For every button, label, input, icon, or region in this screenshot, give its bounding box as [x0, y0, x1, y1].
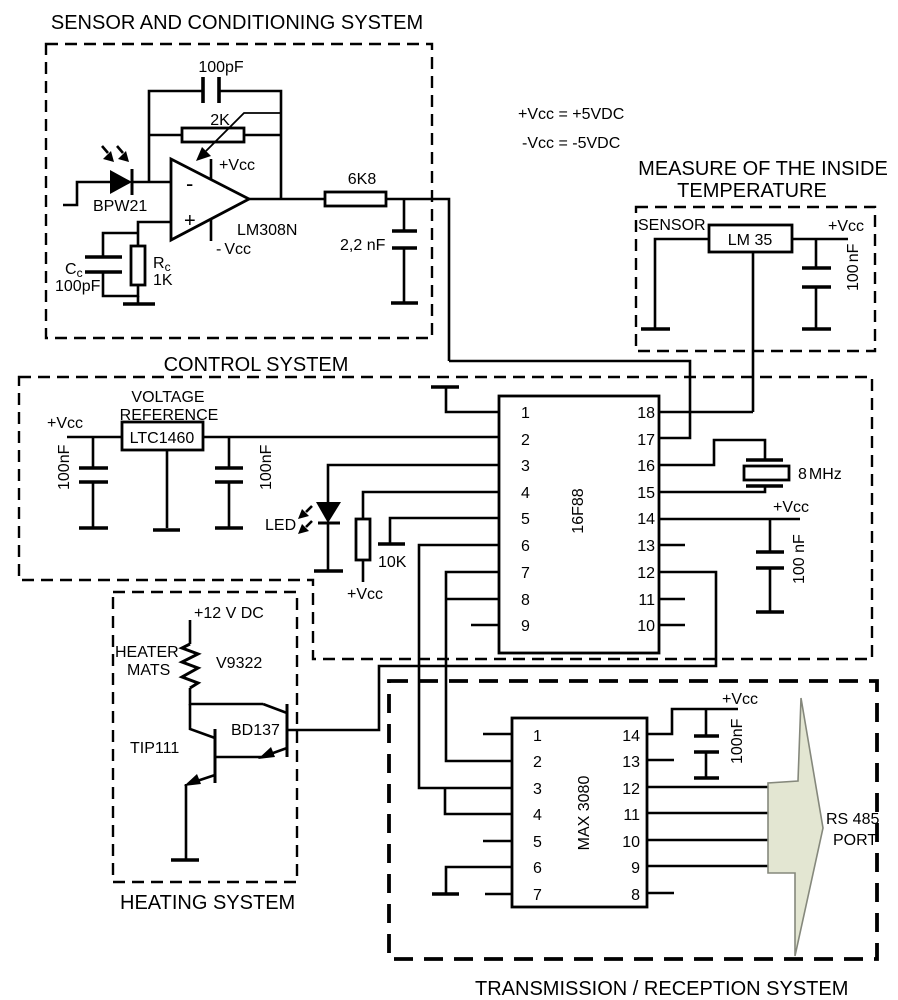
svg-text:LTC1460: LTC1460	[130, 430, 195, 447]
input terminal stub	[63, 182, 110, 205]
svg-text:RS 485: RS 485	[826, 811, 879, 828]
dashed enclosure: sensor and conditioning system	[46, 44, 432, 338]
svg-text:11: 11	[623, 807, 640, 824]
resistor 2K (adjustable)	[182, 128, 244, 142]
svg-text:8: 8	[631, 887, 640, 904]
pin number 4 (MAX)	[533, 807, 542, 824]
svg-text:15: 15	[637, 485, 655, 502]
pin number 10	[637, 618, 655, 635]
wire +Vcc to LTC1460	[67, 436, 122, 439]
wire 16F88 pin 13 stub	[659, 544, 685, 547]
svg-text:-: -	[186, 171, 193, 196]
wire MAX pin 11 to RS485 port	[647, 812, 768, 815]
dashed enclosure: measure of the inside temperature	[636, 207, 875, 351]
wire MAX pin 10 to RS485 port	[647, 839, 768, 842]
svg-text:9: 9	[631, 860, 640, 877]
dashed enclosure: heating system	[113, 592, 297, 882]
svg-text:100nF: 100nF	[258, 444, 275, 490]
wire TIP111 emitter to ground	[185, 784, 188, 859]
IC LTC1460 voltage reference	[122, 422, 203, 450]
wire MAX pin 1 stub	[483, 733, 512, 736]
label +Vcc (MAX)	[722, 691, 758, 708]
wire 16F88 pin 8 join	[446, 598, 499, 601]
label BPW21	[93, 198, 147, 215]
pin number 2 (MAX)	[533, 754, 542, 771]
wire 16F88 pin 16 to crystal top	[659, 440, 765, 465]
svg-text:TRANSMISSION / RECEPTION SYSTE: TRANSMISSION / RECEPTION SYSTEM	[475, 978, 848, 1000]
wire op-amp non-inverting input	[138, 222, 171, 246]
wire MAX pin 7 stub	[485, 893, 512, 896]
svg-text:1: 1	[533, 728, 542, 745]
wire 2K right lead	[244, 134, 281, 137]
svg-text:+Vcc = +5VDC: +Vcc = +5VDC	[518, 106, 624, 123]
pin number 2	[521, 432, 530, 449]
ground (LM35 decoupling cap)	[802, 327, 831, 331]
pin number 11	[638, 592, 655, 609]
capacitor 100nF (LTC1460 input)	[79, 437, 108, 527]
RS 485 port arrow	[768, 698, 823, 956]
IC U2 MAX 3080	[512, 718, 647, 907]
resistor Rc 1K	[131, 246, 145, 285]
svg-text:100nF: 100nF	[845, 243, 862, 291]
wire MAX pin 8 stub	[647, 892, 674, 895]
wire 16F88 pin 17 to sensor output	[449, 361, 690, 438]
capacitor 100nF (LTC1460 output)	[215, 437, 243, 527]
wire 16F88 pin 11 stub	[659, 598, 685, 601]
svg-text:100pF: 100pF	[55, 278, 101, 295]
wire 16F88 pin 3 to LED	[328, 465, 499, 502]
resistor 6K8	[325, 192, 386, 206]
svg-text:MAX 3080: MAX 3080	[576, 776, 593, 851]
svg-text:CONTROL SYSTEM: CONTROL SYSTEM	[164, 354, 349, 376]
wire MAX pin 14 to +Vcc	[647, 709, 738, 734]
pull-up bar at 16F88 pin 1	[431, 387, 499, 412]
label RS 485 PORT	[826, 811, 879, 849]
label V9322	[216, 655, 262, 672]
label 8 MHz	[798, 466, 842, 483]
TIP111 collector	[190, 704, 215, 738]
svg-text:BD137: BD137	[231, 722, 280, 739]
pin number 8	[521, 592, 530, 609]
transistor Q1 TIP111	[214, 729, 217, 783]
wire BD137 emitter to TIP111 base	[215, 756, 262, 759]
wire LM35 left lead	[655, 239, 709, 328]
wire op-amp output	[249, 198, 325, 201]
svg-text:PORT: PORT	[833, 832, 877, 849]
wire +12V down to heater resistor	[189, 620, 192, 644]
svg-text:100nF: 100nF	[729, 718, 746, 764]
label Rc	[153, 255, 171, 274]
svg-text:18: 18	[637, 405, 655, 422]
capacitor 100nF (MAX decoupling)	[694, 709, 719, 777]
ground (2,2 nF)	[391, 301, 418, 305]
svg-text:SENSOR AND CONDITIONING SYSTEM: SENSOR AND CONDITIONING SYSTEM	[51, 12, 423, 34]
capacitor 100 nF (LM35 decoupling)	[802, 239, 831, 328]
wire 6K8 output node	[386, 199, 449, 361]
pin number 10 (MAX)	[622, 834, 640, 851]
svg-text:9: 9	[521, 618, 530, 635]
wire LM35 right lead to +Vcc	[792, 238, 848, 241]
dashed enclosure: transmission / reception system	[389, 681, 877, 959]
svg-text:+Vcc: +Vcc	[773, 499, 809, 516]
wire LTC1460 output to 16F88 pin 2	[203, 436, 499, 439]
pin number 4	[521, 485, 530, 502]
wire 16F88 pin 18 to LM35	[659, 411, 753, 414]
wire 2,2nF tap	[403, 199, 406, 231]
svg-text:BPW21: BPW21	[93, 198, 147, 215]
wire Cc top connection	[103, 233, 138, 257]
svg-text:7: 7	[521, 565, 530, 582]
wire feedback cap left	[149, 91, 203, 182]
pin number 12	[637, 565, 655, 582]
wire 16F88 pin 14 to +Vcc	[659, 518, 800, 521]
ground (output cap)	[215, 526, 243, 530]
pin number 7	[521, 565, 530, 582]
value label 100pF (feedback capacitor)	[198, 59, 244, 76]
label TIP111	[130, 740, 179, 757]
ground (input cap)	[79, 526, 108, 530]
transistor Q2 BD137	[286, 704, 289, 757]
potentiometer wiper arrow for 2K	[196, 113, 281, 161]
label 100 nF rotated (16F88 decoupling)	[791, 534, 808, 584]
svg-text:+Vcc: +Vcc	[828, 218, 864, 235]
ground (sensor input network)	[123, 296, 155, 304]
capacitor Cc 100pF	[85, 257, 122, 272]
wire 16F88 pin 12 to BD137 base	[287, 572, 716, 730]
ground (LTC1460)	[153, 528, 180, 532]
label 100pF (Cc value)	[55, 278, 101, 295]
pin number 5	[521, 511, 530, 528]
svg-text:14: 14	[622, 728, 640, 745]
label 10K	[378, 554, 407, 571]
pin number 14	[637, 511, 655, 528]
capacitor C feedback 100pF	[203, 77, 219, 103]
ground (LED)	[314, 569, 343, 573]
supply note +Vcc = +5VDC	[518, 106, 624, 123]
crystal X1 8MHz	[744, 460, 789, 486]
label BD137	[231, 722, 280, 739]
svg-text:6: 6	[521, 538, 530, 555]
op-amp -Vcc supply pin	[211, 219, 251, 258]
pin number 13 (MAX)	[622, 754, 640, 771]
label +Vcc (LTC1460 input)	[47, 415, 83, 432]
svg-text:16F88: 16F88	[570, 488, 587, 533]
svg-text:TEMPERATURE: TEMPERATURE	[677, 180, 827, 202]
section title: SENSOR AND CONDITIONING SYSTEM	[51, 12, 423, 34]
pin number 6	[521, 538, 530, 555]
LED light emission arrows	[298, 506, 312, 534]
ground (heating)	[171, 858, 199, 862]
resistor 10K	[356, 519, 370, 582]
section title: MEASURE OF THE INSIDE TEMPERATURE	[638, 158, 888, 202]
svg-text:+Vcc: +Vcc	[47, 415, 83, 432]
pin number 5 (MAX)	[533, 834, 542, 851]
svg-text:17: 17	[637, 432, 655, 449]
wire 16F88 pin 9 stub	[471, 624, 499, 627]
svg-text:1K: 1K	[153, 272, 173, 289]
wire MAX pin 3/4 tie	[445, 788, 512, 814]
wire heater resistor to collectors node	[190, 688, 263, 704]
LED D1	[316, 502, 341, 570]
supply note -Vcc = -5VDC	[522, 135, 620, 152]
pin number 15	[637, 485, 655, 502]
svg-text:LM 35: LM 35	[728, 232, 773, 249]
svg-text:TIP111: TIP111	[130, 740, 179, 757]
label Cc	[65, 261, 83, 280]
svg-text:5: 5	[521, 511, 530, 528]
svg-text:2: 2	[521, 432, 530, 449]
svg-text:+Vcc: +Vcc	[347, 586, 383, 603]
pin number 1 (MAX)	[533, 728, 542, 745]
wire 16F88 pins 7-8 down to MAX3080 pin 2	[446, 572, 512, 761]
pin number 7 (MAX)	[533, 887, 542, 904]
ground (MAX pin 6)	[432, 892, 459, 896]
dashed enclosure: control system (L-shaped)	[19, 377, 872, 659]
label 100 nF rotated	[845, 243, 862, 291]
IC U1 16F88	[499, 396, 659, 653]
svg-text:-Vcc = -5VDC: -Vcc = -5VDC	[522, 135, 620, 152]
svg-text:+12 V DC: +12 V DC	[194, 605, 264, 622]
svg-text:V9322: V9322	[216, 655, 262, 672]
label 100nF rotated (output cap)	[258, 444, 275, 490]
svg-text:10K: 10K	[378, 554, 407, 571]
ground (MAX decoupling cap)	[694, 776, 719, 780]
svg-text:+Vcc: +Vcc	[722, 691, 758, 708]
label LM308N	[237, 222, 297, 239]
svg-text:100pF: 100pF	[198, 59, 244, 76]
light arrows into photodiode	[102, 146, 129, 162]
wire LM35 output down to 16F88 pin 18	[752, 252, 755, 412]
TIP111 emitter with arrow	[184, 774, 215, 786]
svg-text:3: 3	[521, 458, 530, 475]
svg-text:+Vcc: +Vcc	[219, 157, 255, 174]
wire MAX pin 13 stub	[647, 759, 674, 762]
pin number 18	[637, 405, 655, 422]
svg-text:6K8: 6K8	[348, 171, 377, 188]
wire BD137 collector	[263, 704, 287, 713]
svg-text:16: 16	[637, 458, 655, 475]
section title: CONTROL SYSTEM	[164, 354, 349, 376]
svg-text:4: 4	[521, 485, 530, 502]
value label 6K8	[348, 171, 377, 188]
wire feedback cap right	[219, 91, 281, 199]
pin number 17	[637, 432, 655, 449]
label +Vcc (LM35)	[828, 218, 864, 235]
label 1K	[153, 272, 173, 289]
wire MAX pin 6 to ground	[446, 867, 512, 893]
svg-text:12: 12	[622, 781, 640, 798]
pin number 3	[521, 458, 530, 475]
svg-text:100 nF: 100 nF	[791, 534, 808, 584]
label 100nF rotated (MAX decoupling)	[729, 718, 746, 764]
svg-text:2,2 nF: 2,2 nF	[340, 237, 386, 254]
pin number 9 (MAX)	[631, 860, 640, 877]
svg-text:LM308N: LM308N	[237, 222, 297, 239]
svg-text:4: 4	[533, 807, 542, 824]
capacitor 100 nF (16F88 decoupling)	[756, 519, 784, 611]
pin number 8 (MAX)	[631, 887, 640, 904]
wire LTC1460 ground lead	[166, 450, 169, 528]
svg-text:VOLTAGE: VOLTAGE	[131, 389, 204, 406]
label VOLTAGE REFERENCE	[120, 389, 219, 424]
wire MAX pin 5 stub	[483, 840, 512, 843]
svg-text:HEATER: HEATER	[115, 644, 179, 661]
svg-text:MEASURE OF THE INSIDE: MEASURE OF THE INSIDE	[638, 158, 888, 180]
section title: HEATING SYSTEM	[120, 892, 295, 914]
pin number 6 (MAX)	[533, 860, 542, 877]
wire 2K left lead	[149, 134, 182, 137]
pin number 9	[521, 618, 530, 635]
svg-text:6: 6	[533, 860, 542, 877]
svg-text:14: 14	[637, 511, 655, 528]
svg-text:1: 1	[521, 405, 530, 422]
wire 16F88 pin 6 down to MAX3080 pin 3	[419, 545, 512, 788]
svg-text:10: 10	[637, 618, 655, 635]
svg-text:8: 8	[521, 592, 530, 609]
ground (16F88 decoupling cap)	[756, 610, 784, 614]
wire 16F88 pin 4 to 10K	[363, 492, 499, 519]
pin number 16	[637, 458, 655, 475]
label +Vcc (pin 14)	[773, 499, 809, 516]
label 100nF rotated (input cap)	[56, 444, 73, 490]
wire crystal bottom to 16F88 pin 15	[659, 486, 765, 492]
pin number 13	[637, 538, 655, 555]
wire 16F88 pin 5 to ground	[390, 518, 499, 543]
label LED	[265, 517, 296, 534]
wire MAX pin 12 to RS485 port	[647, 786, 768, 789]
svg-text:5: 5	[533, 834, 542, 851]
svg-text:HEATING SYSTEM: HEATING SYSTEM	[120, 892, 295, 914]
svg-text:2K: 2K	[210, 112, 230, 129]
svg-text:13: 13	[622, 754, 640, 771]
op-amp U1 LM308N	[171, 159, 249, 240]
svg-text:8MHz: 8MHz	[798, 466, 842, 483]
IC LM 35 temperature sensor	[709, 225, 792, 252]
ground (LM35 left)	[641, 327, 670, 331]
op-amp +Vcc supply pin	[211, 157, 255, 180]
label HEATER MATS	[115, 644, 179, 679]
capacitor 2,2 nF	[392, 231, 417, 302]
svg-text:+: +	[184, 210, 196, 232]
svg-text:10: 10	[622, 834, 640, 851]
ground (pin 5)	[378, 542, 405, 546]
resistor V9322 heater mats (zigzag)	[182, 644, 198, 688]
svg-text:SENSOR: SENSOR	[638, 217, 706, 234]
label +12 V DC	[194, 605, 264, 622]
svg-text:13: 13	[637, 538, 655, 555]
svg-text:MATS: MATS	[127, 662, 170, 679]
svg-text:LED: LED	[265, 517, 296, 534]
label +Vcc (10K pull)	[347, 586, 383, 603]
photodiode BPW21	[110, 169, 132, 195]
svg-text:3: 3	[533, 781, 542, 798]
pin number 11 (MAX)	[623, 807, 640, 824]
pin number 14 (MAX)	[622, 728, 640, 745]
label SENSOR	[638, 217, 706, 234]
pin number 3 (MAX)	[533, 781, 542, 798]
pin number 12 (MAX)	[622, 781, 640, 798]
svg-text:11: 11	[638, 592, 655, 609]
wire MAX pin 9 to RS485 port	[647, 865, 768, 868]
svg-text:2: 2	[533, 754, 542, 771]
pin number 1	[521, 405, 530, 422]
svg-text:100nF: 100nF	[56, 444, 73, 490]
BD137 emitter with arrow	[258, 747, 287, 759]
svg-text:12: 12	[637, 565, 655, 582]
svg-text:-Vcc: -Vcc	[216, 241, 251, 258]
wire photodiode to op-amp inverting input	[132, 181, 171, 184]
wire Cc/Rc bottom join	[103, 272, 138, 296]
value label 2K	[210, 112, 230, 129]
label 2,2 nF	[340, 237, 386, 254]
svg-text:7: 7	[533, 887, 542, 904]
section title: TRANSMISSION / RECEPTION SYSTEM	[475, 978, 848, 1000]
wire 16F88 pin 10 stub	[659, 624, 685, 627]
